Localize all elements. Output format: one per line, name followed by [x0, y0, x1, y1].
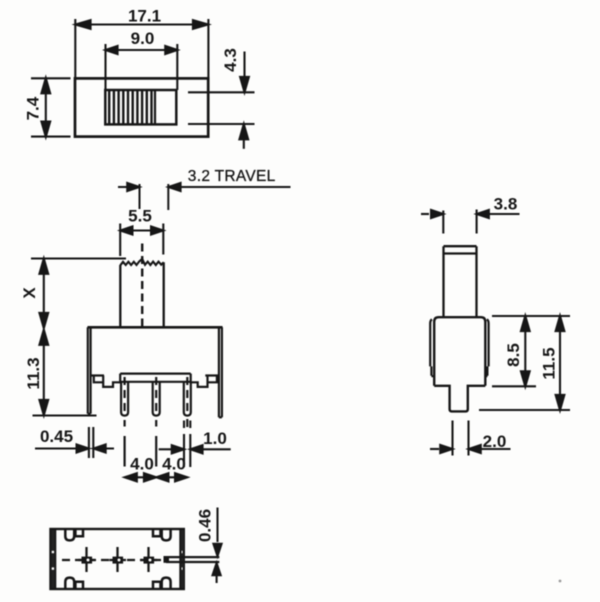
corner slot bottom-left — [65, 578, 74, 589]
bottom pin 1 — [78, 547, 95, 572]
svg-text:7.4: 7.4 — [24, 96, 43, 120]
svg-text:X: X — [20, 287, 39, 299]
front body left bracket strip — [88, 327, 91, 414]
slider hatch lines — [109, 90, 151, 124]
pin dashed centerlines — [125, 377, 188, 467]
dim 7.4 witness + line — [31, 78, 71, 136]
dim 17.1 witness lines — [75, 19, 208, 78]
bottom view dashed centerline — [62, 559, 168, 561]
dim 11.3 — [33, 330, 97, 416]
bottom pin 3 — [140, 547, 157, 572]
corner slot top-right — [162, 529, 171, 540]
dim 9.0 witness lines — [106, 44, 178, 90]
svg-text:11.3: 11.3 — [24, 357, 43, 389]
bottom view right wall band — [181, 530, 184, 588]
svg-text:9.0: 9.0 — [131, 29, 155, 48]
bottom view left wall band — [51, 530, 54, 588]
svg-text:0.46: 0.46 — [196, 509, 215, 542]
svg-text:17.1: 17.1 — [128, 7, 161, 26]
dim 2.0 — [430, 421, 511, 456]
corner notch bottom-right — [153, 582, 161, 589]
pin 2 front — [153, 382, 160, 416]
side body bottom + pin — [434, 386, 485, 412]
bottom pin side profile — [164, 556, 220, 563]
svg-text:1.0: 1.0 — [203, 429, 227, 448]
dim 3.8 — [421, 210, 520, 234]
corner slot top-left — [65, 529, 74, 540]
front body bottom profile left — [91, 376, 121, 387]
dim 8.5 and 11.5 extension lines — [479, 316, 570, 410]
dim 1.0 witness lines — [159, 421, 231, 468]
corner notch top-right — [153, 529, 161, 536]
front body top edge — [88, 326, 223, 329]
travel ticks — [118, 184, 291, 210]
svg-text:4.0: 4.0 — [162, 455, 186, 474]
svg-text:8.5: 8.5 — [504, 343, 523, 367]
svg-text:3.8: 3.8 — [494, 195, 518, 214]
side bracket left — [430, 319, 434, 376]
dim 4.3 extension lines — [188, 52, 255, 149]
bottom view outer rect — [51, 529, 184, 589]
knob break zigzag — [120, 259, 163, 266]
faint speck — [559, 580, 562, 583]
bottom pin 2 — [109, 547, 126, 572]
dim 0.46 — [216, 508, 219, 584]
corner notch top-left — [75, 529, 83, 536]
corner slot bottom-right — [162, 578, 171, 589]
top view outer body rectangle — [75, 78, 208, 136]
svg-text:4.3: 4.3 — [221, 48, 240, 72]
side bracket right — [485, 319, 488, 376]
top view slot rectangle — [105, 90, 176, 124]
side body outline — [434, 317, 485, 386]
dim X — [31, 259, 126, 329]
bottom view inner wall lines — [55, 529, 180, 589]
knob (actuator) sides — [120, 262, 163, 327]
pin 3 front — [184, 382, 191, 416]
dim 0.45 witness lines — [35, 427, 114, 458]
dim 17.1 line — [75, 23, 208, 25]
knob dashed centerline — [141, 244, 143, 331]
svg-text:0.45: 0.45 — [40, 427, 73, 446]
front body right bracket strip — [219, 327, 222, 417]
svg-text:5.5: 5.5 — [128, 207, 152, 226]
corner notch bottom-left — [75, 582, 83, 589]
slider hatched knob boundary — [154, 90, 156, 124]
svg-text:4.0: 4.0 — [130, 455, 154, 474]
svg-text:2.0: 2.0 — [483, 432, 507, 451]
svg-text:11.5: 11.5 — [539, 347, 558, 379]
pin 1 front — [121, 382, 128, 416]
dim 4.0 4.0 — [125, 476, 188, 478]
front body bottom profile right — [191, 376, 219, 387]
svg-text:3.2 TRAVEL: 3.2 TRAVEL — [188, 168, 276, 185]
dim 5.5 — [120, 224, 163, 257]
base plate — [120, 374, 191, 384]
side actuator — [444, 246, 477, 317]
